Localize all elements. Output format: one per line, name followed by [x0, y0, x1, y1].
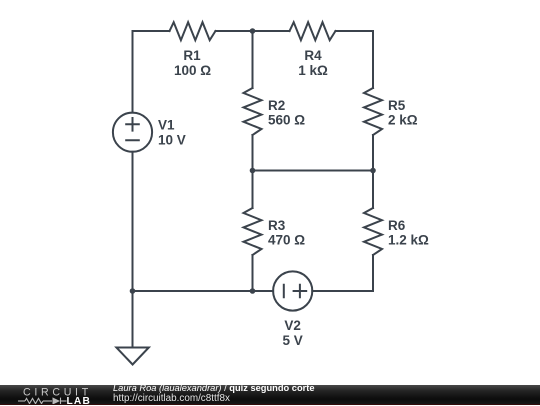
resistor R3: [244, 208, 262, 255]
wire R4 to right rail: [336, 30, 374, 32]
footer bar: [0, 385, 540, 406]
svg-text:2 kΩ: 2 kΩ: [388, 113, 418, 128]
wire middle horizontal node B to node C: [253, 170, 374, 172]
node D junction dot: [250, 288, 256, 294]
ground: [116, 348, 148, 365]
resistor R1: [170, 22, 216, 40]
wire R2 to mid node B: [252, 135, 254, 171]
node B junction dot: [250, 168, 256, 174]
node A junction dot: [250, 28, 256, 34]
wire right rail top to R5: [372, 31, 374, 88]
wire node C to R6: [372, 171, 374, 209]
wire R1 to node A: [216, 30, 253, 32]
svg-text:560 Ω: 560 Ω: [268, 113, 305, 128]
wire V2 to right rail: [312, 290, 373, 292]
wire R5 to mid node C: [372, 135, 374, 171]
resistor R6: [364, 208, 382, 255]
wire R6 to bottom right corner: [372, 255, 374, 291]
svg-text:1.2 kΩ: 1.2 kΩ: [388, 233, 429, 248]
wire top-left horizontal from left rail to R1: [133, 30, 170, 32]
node C junction dot: [370, 168, 376, 174]
svg-text:R5: R5: [388, 98, 406, 113]
voltage source V2: [273, 271, 312, 310]
wire middle rail node A to R2: [252, 31, 254, 88]
wire node B to R3: [252, 171, 254, 209]
wire R3 to bottom node D: [252, 255, 254, 291]
CircuitLab logo: [0, 385, 100, 406]
resistor R5: [364, 88, 382, 135]
wire left rail top (to V1): [132, 31, 134, 113]
svg-text:10 V: 10 V: [158, 133, 186, 148]
svg-text:V1: V1: [158, 118, 175, 133]
svg-text:470 Ω: 470 Ω: [268, 233, 305, 248]
voltage source V1: [113, 113, 152, 152]
resistor R4: [290, 22, 336, 40]
wire bottom horizontal left-rail to V2: [133, 290, 274, 292]
svg-text:1 kΩ: 1 kΩ: [298, 63, 328, 78]
svg-text:R2: R2: [268, 98, 285, 113]
wire bottom node to ground: [132, 291, 134, 348]
wire V1 to bottom-left node: [132, 152, 134, 291]
svg-text:R6: R6: [388, 218, 406, 233]
svg-text:5 V: 5 V: [282, 333, 302, 348]
svg-text:V2: V2: [284, 318, 301, 333]
svg-text:R4: R4: [304, 48, 322, 63]
bottom-left junction dot: [130, 288, 136, 294]
svg-text:R1: R1: [183, 48, 201, 63]
wire node A to R4: [253, 30, 290, 32]
svg-text:100 Ω: 100 Ω: [174, 63, 211, 78]
svg-text:R3: R3: [268, 218, 286, 233]
resistor R2: [244, 88, 262, 135]
